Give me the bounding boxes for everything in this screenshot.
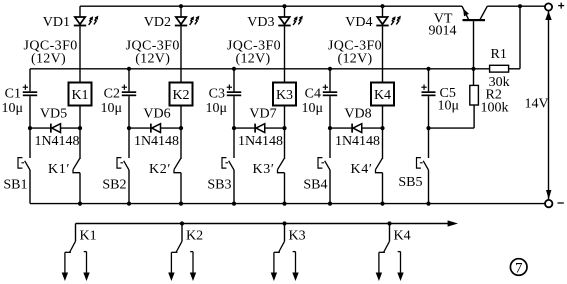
svg-text:SB3: SB3 [207,178,231,193]
svg-text:1N4148: 1N4148 [335,134,380,149]
svg-text:K1′: K1′ [48,162,70,177]
svg-text:1N4148: 1N4148 [34,134,79,149]
svg-text:10μ: 10μ [100,101,122,116]
svg-text:K1: K1 [71,88,88,103]
svg-text:R1: R1 [491,47,507,62]
svg-text:(12V): (12V) [135,51,170,66]
svg-text:K3: K3 [289,228,306,243]
svg-text:(12V): (12V) [31,51,66,66]
svg-text:K1: K1 [80,228,97,243]
svg-text:K4′: K4′ [351,162,373,177]
svg-text:(12V): (12V) [236,51,271,66]
svg-text:K2′: K2′ [149,162,171,177]
svg-text:7: 7 [515,260,523,276]
svg-text:9014: 9014 [429,24,457,39]
svg-text:SB1: SB1 [3,178,27,193]
svg-text:10μ: 10μ [1,101,23,116]
svg-text:C3: C3 [209,87,225,102]
svg-text:K3: K3 [276,88,293,103]
svg-text:10μ: 10μ [205,101,227,116]
svg-text:K4: K4 [394,228,411,243]
svg-text:14V: 14V [525,97,549,112]
svg-text:VD4: VD4 [345,15,372,30]
svg-text:VD5: VD5 [40,107,67,122]
svg-text:(12V): (12V) [338,51,373,66]
svg-text:K3′: K3′ [253,162,275,177]
svg-text:K4: K4 [374,88,391,103]
svg-text:SB5: SB5 [398,175,422,190]
svg-text:C4: C4 [305,87,321,102]
svg-text:K2: K2 [186,228,203,243]
svg-text:SB4: SB4 [303,178,327,193]
svg-text:SB2: SB2 [102,178,126,193]
svg-text:VD7: VD7 [249,107,276,122]
svg-text:100k: 100k [481,101,509,116]
svg-text:VD1: VD1 [43,15,70,30]
svg-text:C2: C2 [104,87,120,102]
svg-text:10μ: 10μ [438,98,460,113]
svg-text:1N4148: 1N4148 [238,134,283,149]
svg-text:10μ: 10μ [301,101,323,116]
svg-text:VD2: VD2 [144,15,171,30]
svg-text:K2: K2 [172,88,189,103]
svg-text:VD3: VD3 [247,15,274,30]
svg-text:C1: C1 [5,87,21,102]
svg-text:1N4148: 1N4148 [134,134,179,149]
svg-text:VD6: VD6 [143,107,170,122]
svg-text:VD8: VD8 [344,107,371,122]
